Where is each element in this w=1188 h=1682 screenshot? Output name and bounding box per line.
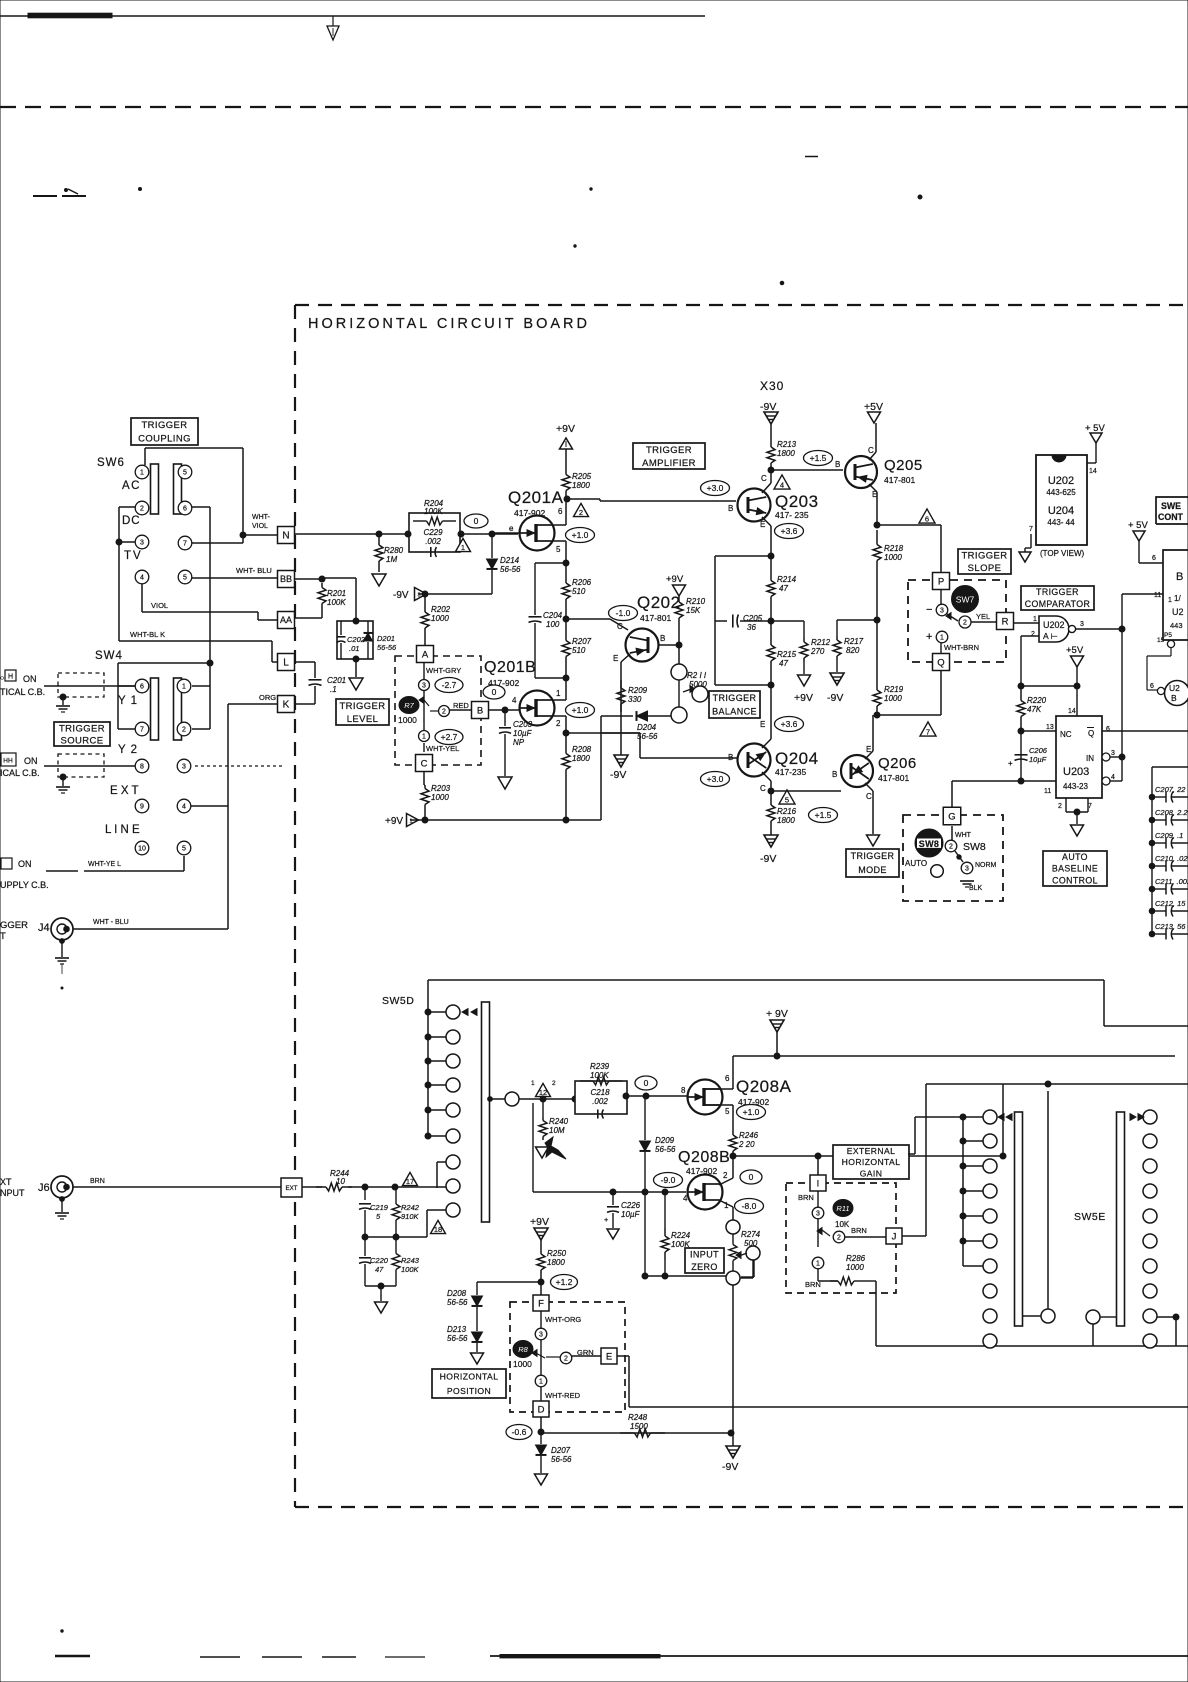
svg-text:R274: R274 [741, 1230, 761, 1239]
svg-text:GAIN: GAIN [860, 1168, 883, 1178]
svg-text:R201: R201 [327, 589, 346, 598]
svg-text:○: ○ [0, 675, 4, 682]
svg-text:BASELINE: BASELINE [1052, 864, 1098, 874]
svg-text:+ 5V: + 5V [1128, 520, 1148, 531]
svg-text:SW8: SW8 [919, 839, 939, 849]
svg-text:e: e [509, 524, 514, 533]
svg-text:+9V: +9V [794, 692, 813, 704]
svg-text:5: 5 [785, 796, 789, 805]
svg-text:P: P [938, 576, 944, 587]
svg-text:A: A [422, 649, 429, 660]
svg-text:9: 9 [140, 804, 144, 811]
svg-text:P5: P5 [1164, 632, 1172, 639]
svg-text:3: 3 [422, 683, 426, 690]
svg-text:Q: Q [1088, 729, 1094, 738]
svg-text:SW5D: SW5D [382, 995, 414, 1007]
svg-text:56-56: 56-56 [447, 1334, 468, 1343]
svg-text:I: I [817, 1178, 820, 1189]
svg-text:7: 7 [1029, 526, 1033, 533]
svg-text:WHT-ORG: WHT-ORG [545, 1315, 581, 1324]
svg-text:2: 2 [564, 1356, 568, 1363]
svg-text:4: 4 [1111, 774, 1115, 781]
svg-text:TRIGGER: TRIGGER [339, 701, 385, 712]
svg-text:10K: 10K [835, 1220, 850, 1229]
svg-text:BRN: BRN [90, 1178, 105, 1185]
svg-text:R220: R220 [1027, 696, 1047, 705]
svg-text:R216: R216 [777, 807, 797, 816]
svg-text:14: 14 [1068, 708, 1076, 715]
svg-text:E: E [760, 720, 765, 729]
svg-text:6: 6 [725, 1074, 730, 1083]
svg-text:2: 2 [579, 508, 583, 517]
svg-text:D201: D201 [377, 634, 395, 643]
svg-text:R280: R280 [384, 546, 404, 555]
svg-text:WHT-YE L: WHT-YE L [88, 861, 121, 868]
svg-text:2: 2 [723, 1171, 728, 1180]
svg-text:NORM: NORM [975, 862, 997, 869]
svg-text:+1.2: +1.2 [556, 1277, 573, 1287]
svg-text:443-23: 443-23 [1063, 782, 1088, 791]
svg-text:1: 1 [816, 1261, 820, 1268]
svg-text:2: 2 [963, 620, 967, 627]
svg-text:EXTERNAL: EXTERNAL [847, 1146, 896, 1156]
svg-text:TRIGGER: TRIGGER [961, 551, 1007, 562]
svg-text:COUPLING: COUPLING [138, 434, 191, 445]
svg-text:-9V: -9V [827, 692, 843, 704]
svg-text:+: + [1008, 759, 1013, 768]
svg-text:+3.0: +3.0 [707, 774, 724, 784]
svg-text:1800: 1800 [572, 481, 590, 490]
svg-text:1M: 1M [386, 555, 397, 564]
svg-text:R219: R219 [884, 685, 904, 694]
svg-text:AUTO: AUTO [905, 859, 927, 868]
svg-text:0: 0 [644, 1078, 649, 1088]
svg-text:Q201B: Q201B [484, 659, 536, 676]
svg-text:Y 2: Y 2 [118, 744, 138, 756]
svg-text:Q202: Q202 [637, 593, 681, 612]
svg-text:4: 4 [683, 1194, 688, 1203]
svg-text:417-801: 417-801 [640, 613, 671, 623]
svg-text:7: 7 [183, 541, 187, 548]
svg-text:R239: R239 [590, 1062, 610, 1071]
svg-text:R205: R205 [572, 472, 592, 481]
svg-text:.002: .002 [425, 537, 441, 546]
svg-text:100: 100 [546, 620, 560, 629]
svg-text:HH: HH [3, 758, 13, 765]
svg-text:R224: R224 [671, 1231, 691, 1240]
svg-text:-9V: -9V [722, 1461, 738, 1473]
svg-text:4: 4 [512, 696, 517, 705]
svg-text:6: 6 [558, 507, 563, 516]
svg-text:2: 2 [182, 727, 186, 734]
svg-text:R210: R210 [686, 597, 706, 606]
svg-text:J4: J4 [38, 922, 50, 934]
svg-text:+3.6: +3.6 [781, 526, 798, 536]
svg-text:D204: D204 [637, 723, 657, 732]
svg-text:100K: 100K [424, 507, 443, 516]
svg-text:D207: D207 [551, 1446, 571, 1455]
svg-text:VIOL: VIOL [151, 601, 168, 610]
svg-text:L: L [283, 658, 289, 669]
svg-text:2: 2 [1031, 631, 1035, 638]
svg-text:1500: 1500 [630, 1422, 648, 1431]
svg-text:+3.0: +3.0 [707, 483, 724, 493]
svg-text:5: 5 [182, 846, 186, 853]
svg-text:D209: D209 [655, 1136, 675, 1145]
svg-text:WHT-RED: WHT-RED [545, 1391, 581, 1400]
svg-text:TRIGGER: TRIGGER [646, 445, 692, 456]
svg-text:4: 4 [140, 575, 144, 582]
svg-text:-2.7: -2.7 [442, 680, 457, 690]
svg-text:E: E [613, 654, 618, 663]
svg-text:R209: R209 [628, 686, 648, 695]
svg-text:C212, 15: C212, 15 [1155, 899, 1186, 908]
svg-text:B: B [1171, 693, 1177, 703]
svg-text:1800: 1800 [777, 449, 795, 458]
svg-text:ZERO: ZERO [691, 1262, 718, 1272]
svg-text:2 20: 2 20 [738, 1140, 755, 1149]
svg-text:X30: X30 [760, 379, 784, 393]
svg-text:Q205: Q205 [884, 457, 923, 474]
svg-text:POSITION: POSITION [447, 1386, 491, 1396]
svg-text:+9V: +9V [556, 423, 575, 435]
svg-text:6: 6 [140, 684, 144, 691]
svg-text:Q203: Q203 [775, 492, 819, 511]
svg-text:+1.0: +1.0 [572, 530, 589, 540]
svg-text:C218: C218 [590, 1088, 610, 1097]
svg-text:WHT-YEL: WHT-YEL [426, 744, 459, 753]
svg-text:1: 1 [422, 734, 426, 741]
svg-text:ORG: ORG [259, 693, 276, 702]
svg-text:2: 2 [949, 844, 953, 851]
svg-text:C210, .02: C210, .02 [1155, 854, 1188, 863]
svg-text:COMPARATOR: COMPARATOR [1025, 599, 1091, 609]
svg-text:-9V: -9V [393, 590, 409, 601]
svg-text:Q201A: Q201A [508, 488, 564, 507]
svg-text:U2: U2 [1172, 607, 1184, 617]
svg-text:1: 1 [140, 470, 144, 477]
svg-text:U203: U203 [1063, 766, 1089, 778]
svg-text:+: + [926, 631, 932, 643]
svg-text:1: 1 [940, 635, 944, 642]
svg-text:2: 2 [556, 719, 561, 728]
svg-text:N: N [282, 531, 289, 542]
svg-text:B: B [832, 770, 837, 779]
svg-text:NP: NP [513, 738, 525, 747]
svg-text:R2 I I: R2 I I [687, 671, 707, 680]
svg-text:G: G [948, 811, 955, 822]
svg-text:CONTROL: CONTROL [1052, 875, 1098, 885]
svg-text:1: 1 [182, 684, 186, 691]
svg-text:1000: 1000 [884, 694, 902, 703]
svg-text:6: 6 [925, 515, 929, 524]
svg-text:1: 1 [531, 1080, 535, 1087]
svg-text:+9V: +9V [385, 816, 403, 827]
svg-text:270: 270 [810, 647, 825, 656]
svg-text:6: 6 [1152, 555, 1156, 562]
svg-text:417-235: 417-235 [775, 767, 806, 777]
svg-text:B: B [728, 753, 733, 762]
svg-text:L I N E: L I N E [105, 824, 140, 836]
svg-text:D208: D208 [447, 1289, 467, 1298]
svg-text:3: 3 [182, 764, 186, 771]
svg-text:TRIGGER: TRIGGER [851, 851, 895, 861]
svg-text:R248: R248 [628, 1413, 648, 1422]
svg-text:56-56: 56-56 [377, 643, 397, 652]
svg-text:36: 36 [747, 623, 756, 632]
svg-text:-1.0: -1.0 [616, 608, 631, 618]
svg-text:U202: U202 [1043, 620, 1065, 630]
svg-text:1: 1 [539, 1379, 543, 1386]
svg-text:443-625: 443-625 [1046, 488, 1076, 497]
svg-text:1000: 1000 [398, 715, 417, 725]
svg-text:MODE: MODE [858, 865, 887, 875]
svg-text:U202: U202 [1048, 475, 1074, 487]
svg-text:3: 3 [1111, 750, 1115, 757]
svg-text:−: − [926, 604, 932, 616]
svg-text:4: 4 [780, 481, 784, 490]
svg-text:C: C [421, 758, 428, 769]
svg-text:3: 3 [940, 608, 944, 615]
svg-text:7: 7 [926, 728, 930, 737]
svg-text:.1: .1 [330, 685, 337, 694]
svg-text:TRIGGER: TRIGGER [59, 723, 105, 734]
svg-text:R7: R7 [404, 701, 414, 710]
svg-text:1: 1 [556, 689, 561, 698]
svg-text:EXT: EXT [285, 1185, 297, 1192]
svg-text:T: T [0, 931, 6, 942]
svg-text:RED: RED [453, 701, 469, 710]
svg-text:Q204: Q204 [775, 749, 819, 768]
svg-text:WHT-GRY: WHT-GRY [426, 666, 461, 675]
svg-text:1800: 1800 [547, 1258, 565, 1267]
svg-text:+1.5: +1.5 [815, 810, 832, 820]
svg-text:AA: AA [280, 615, 292, 625]
svg-text:D214: D214 [500, 556, 520, 565]
svg-text:10: 10 [138, 846, 146, 853]
svg-text:BRN: BRN [851, 1226, 867, 1235]
svg-text:GGER: GGER [0, 920, 28, 931]
svg-text:3: 3 [816, 1211, 820, 1218]
svg-text:E: E [606, 1351, 612, 1362]
svg-text:ON: ON [23, 674, 37, 684]
svg-text:510: 510 [572, 646, 586, 655]
svg-text:56-56: 56-56 [500, 565, 521, 574]
svg-text:C: C [761, 474, 767, 483]
svg-text:SLOPE: SLOPE [968, 563, 1002, 574]
svg-text:C206: C206 [1029, 746, 1048, 755]
svg-text:820: 820 [846, 646, 860, 655]
svg-text:WHT: WHT [955, 832, 972, 839]
svg-text:SW5E: SW5E [1074, 1211, 1106, 1223]
svg-text:6: 6 [1150, 683, 1154, 690]
svg-text:UPPLY C.B.: UPPLY C.B. [0, 880, 49, 890]
svg-text:Q: Q [937, 657, 944, 668]
svg-text:443- 44: 443- 44 [1047, 518, 1075, 527]
svg-text:15K: 15K [686, 606, 701, 615]
svg-text:F: F [538, 1298, 544, 1309]
svg-text:5: 5 [556, 545, 561, 554]
svg-text:C: C [760, 784, 766, 793]
svg-text:C: C [617, 622, 623, 631]
svg-text:TV: TV [124, 550, 143, 562]
svg-text:AUTO: AUTO [1062, 852, 1088, 862]
svg-text:-0.6: -0.6 [512, 1427, 527, 1437]
svg-text:B: B [477, 705, 483, 716]
svg-text:1000: 1000 [431, 793, 449, 802]
svg-text:13: 13 [1046, 724, 1054, 731]
svg-text:3: 3 [539, 1332, 543, 1339]
svg-text:HORIZONTAL: HORIZONTAL [842, 1157, 901, 1167]
svg-text:R8: R8 [518, 1345, 528, 1354]
svg-text:IN: IN [1086, 754, 1094, 763]
svg-text:18: 18 [434, 1225, 442, 1234]
svg-text:B: B [1176, 571, 1183, 583]
svg-text:B: B [728, 504, 733, 513]
svg-text:NC: NC [1060, 730, 1072, 739]
svg-text:R202: R202 [431, 605, 451, 614]
svg-text:U2: U2 [1169, 683, 1180, 693]
svg-text:+5V: +5V [1066, 645, 1084, 656]
svg-text:+ 9V: + 9V [766, 1008, 788, 1020]
svg-text:6: 6 [1106, 726, 1110, 733]
svg-text:C220: C220 [370, 1256, 389, 1265]
svg-text:-9V: -9V [610, 769, 626, 781]
svg-text:100K: 100K [401, 1265, 420, 1274]
svg-text:ON: ON [18, 859, 32, 869]
svg-text:SW4: SW4 [95, 650, 123, 662]
svg-text:BB: BB [280, 574, 292, 584]
svg-text:Q208B: Q208B [678, 1149, 730, 1166]
svg-text:56-56: 56-56 [655, 1145, 676, 1154]
svg-text:-9.0: -9.0 [661, 1175, 676, 1185]
svg-text:YEL: YEL [976, 612, 990, 621]
svg-text:5: 5 [725, 1107, 730, 1116]
svg-text:R207: R207 [572, 637, 592, 646]
svg-text:U204: U204 [1048, 505, 1074, 517]
svg-text:0: 0 [474, 516, 479, 526]
svg-text:R215: R215 [777, 650, 797, 659]
svg-text:A ⊢: A ⊢ [1043, 631, 1059, 641]
svg-text:BLK: BLK [969, 885, 983, 892]
svg-text:C211, .002: C211, .002 [1155, 877, 1188, 886]
svg-text:E X T: E X T [110, 785, 139, 797]
svg-text:56-56: 56-56 [551, 1455, 572, 1464]
svg-text:47: 47 [779, 659, 788, 668]
svg-text:C203: C203 [513, 720, 533, 729]
svg-text:10µF: 10µF [513, 729, 533, 738]
svg-text:5: 5 [183, 575, 187, 582]
svg-text:.01: .01 [349, 644, 359, 653]
svg-text:47K: 47K [1027, 705, 1042, 714]
svg-text:8: 8 [681, 1086, 686, 1095]
svg-text:Q208A: Q208A [736, 1077, 792, 1096]
svg-text:+: + [604, 1215, 609, 1224]
svg-text:Q206: Q206 [878, 755, 917, 772]
svg-text:0: 0 [749, 1172, 754, 1182]
svg-text:HORIZONTAL: HORIZONTAL [440, 1371, 499, 1381]
svg-text:2: 2 [552, 1080, 556, 1087]
svg-text:100K: 100K [327, 598, 346, 607]
svg-text:WHT-BL K: WHT-BL K [130, 630, 165, 639]
svg-text:-8.0: -8.0 [742, 1201, 757, 1211]
svg-text:C204: C204 [543, 611, 563, 620]
svg-text:R218: R218 [884, 544, 904, 553]
svg-text:E: E [760, 520, 765, 529]
svg-text:1: 1 [461, 543, 465, 552]
svg-text:BRN: BRN [798, 1193, 814, 1202]
svg-text:BRN: BRN [805, 1280, 821, 1289]
svg-text:ON: ON [24, 756, 38, 766]
svg-text:4: 4 [182, 804, 186, 811]
svg-text:1: 1 [1168, 597, 1172, 604]
svg-text:DC: DC [122, 515, 141, 527]
svg-text:SWE: SWE [1161, 501, 1181, 511]
svg-text:WHT- BLU: WHT- BLU [236, 566, 272, 575]
svg-text:910K: 910K [401, 1212, 420, 1221]
svg-text:R286: R286 [846, 1254, 866, 1263]
svg-text:R11: R11 [836, 1204, 849, 1213]
svg-text:TRIGGER: TRIGGER [141, 420, 187, 431]
svg-text:B: B [660, 634, 665, 643]
svg-text:10µF: 10µF [621, 1210, 641, 1219]
svg-text:B: B [835, 460, 840, 469]
svg-text:CONT: CONT [1158, 512, 1184, 522]
svg-text:6: 6 [183, 506, 187, 513]
svg-text:R206: R206 [572, 578, 592, 587]
svg-text:1800: 1800 [572, 754, 590, 763]
svg-text:0: 0 [492, 687, 497, 697]
svg-text:SW8: SW8 [963, 841, 986, 853]
svg-text:+2.7: +2.7 [441, 732, 458, 742]
svg-text:BALANCE: BALANCE [712, 706, 757, 716]
svg-text:C: C [868, 446, 874, 455]
svg-text:14: 14 [1089, 468, 1097, 475]
svg-text:D: D [538, 1404, 545, 1415]
svg-text:+1.5: +1.5 [810, 453, 827, 463]
svg-text:2: 2 [442, 709, 446, 716]
svg-text:R246: R246 [739, 1131, 759, 1140]
svg-text:417-801: 417-801 [878, 773, 909, 783]
svg-text:11: 11 [1154, 592, 1161, 599]
svg-text:C207, 22: C207, 22 [1155, 785, 1186, 794]
svg-text:1000: 1000 [431, 614, 449, 623]
svg-text:1800: 1800 [777, 816, 795, 825]
svg-text:11: 11 [1044, 788, 1051, 795]
svg-text:3: 3 [965, 866, 969, 873]
svg-text:VIOL: VIOL [252, 523, 268, 530]
svg-text:SOURCE: SOURCE [60, 735, 103, 746]
svg-text:WHT - BLU: WHT - BLU [93, 919, 129, 926]
svg-text:+9V: +9V [666, 574, 684, 585]
svg-text:1000: 1000 [884, 553, 902, 562]
svg-text:47: 47 [375, 1265, 384, 1274]
svg-text:47: 47 [779, 584, 788, 593]
svg-text:10M: 10M [549, 1126, 565, 1135]
svg-text:3: 3 [1080, 621, 1084, 628]
svg-text:R213: R213 [777, 440, 797, 449]
svg-text:SW6: SW6 [97, 457, 125, 469]
svg-text:1: 1 [1033, 616, 1037, 623]
svg-text:C213, 56: C213, 56 [1155, 922, 1186, 931]
svg-text:443: 443 [1170, 621, 1183, 630]
svg-text:R208: R208 [572, 745, 592, 754]
svg-text:2: 2 [140, 506, 144, 513]
svg-text:TICAL C.B.: TICAL C.B. [0, 687, 45, 697]
svg-text:R214: R214 [777, 575, 797, 584]
svg-text:C229: C229 [423, 528, 443, 537]
svg-text:56-56: 56-56 [447, 1298, 468, 1307]
